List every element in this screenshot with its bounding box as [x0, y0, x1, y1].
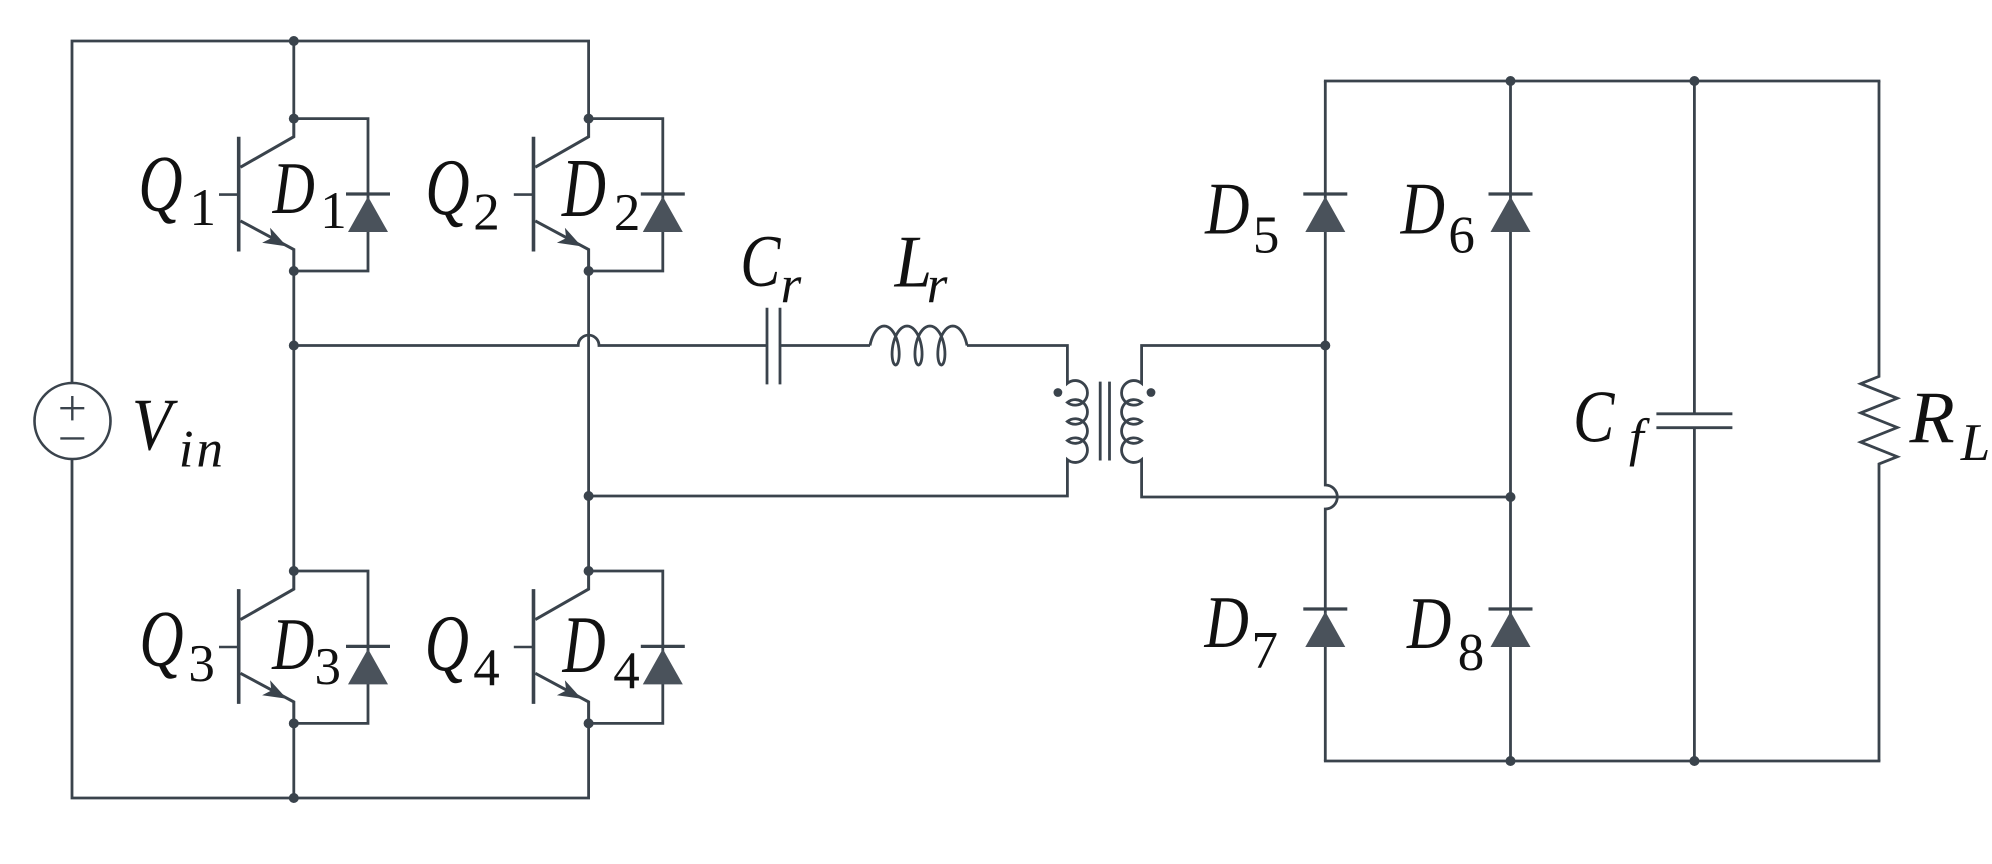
svg-text:D: D	[1204, 167, 1249, 250]
svg-text:C: C	[740, 220, 781, 302]
svg-text:8: 8	[1458, 624, 1485, 682]
svg-text:Q: Q	[425, 600, 469, 688]
svg-text:C: C	[1573, 375, 1616, 457]
svg-text:5: 5	[1253, 206, 1280, 264]
svg-text:L: L	[1960, 414, 1990, 472]
svg-text:R: R	[1909, 377, 1955, 459]
svg-text:r: r	[781, 256, 802, 314]
svg-text:1: 1	[190, 179, 217, 237]
svg-text:r: r	[927, 256, 948, 314]
svg-text:D: D	[1406, 582, 1451, 665]
svg-text:2: 2	[473, 184, 500, 242]
svg-text:D: D	[1204, 581, 1249, 664]
svg-text:Q: Q	[139, 596, 183, 684]
svg-text:4: 4	[473, 639, 500, 697]
svg-text:7: 7	[1252, 622, 1279, 680]
svg-text:D: D	[561, 142, 606, 235]
svg-text:3: 3	[315, 638, 342, 696]
svg-text:D: D	[562, 599, 606, 690]
svg-text:6: 6	[1448, 206, 1475, 264]
svg-text:V: V	[132, 385, 179, 467]
svg-text:D: D	[272, 149, 315, 230]
svg-text:D: D	[1400, 167, 1445, 250]
svg-text:4: 4	[613, 642, 640, 700]
svg-text:Q: Q	[425, 144, 469, 232]
svg-text:in: in	[179, 421, 226, 479]
svg-text:Q: Q	[138, 141, 182, 229]
svg-text:3: 3	[188, 635, 215, 693]
svg-text:1: 1	[320, 182, 347, 240]
svg-text:2: 2	[614, 184, 641, 242]
svg-text:D: D	[271, 605, 314, 686]
